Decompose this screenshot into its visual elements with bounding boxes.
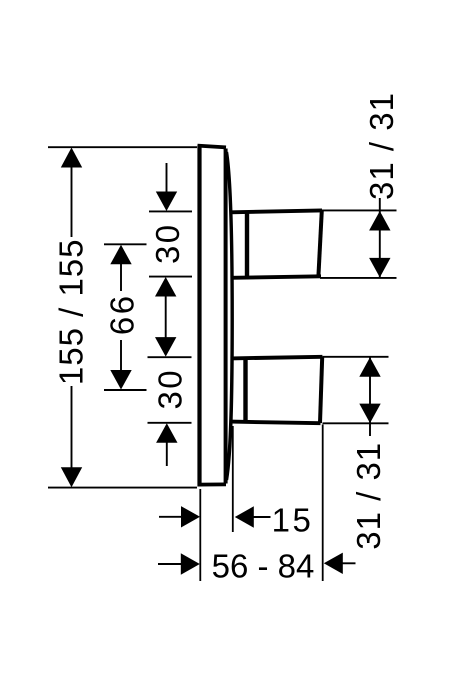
dim155 bottom arrow <box>61 467 82 487</box>
dim31a bottom ext line <box>320 277 397 279</box>
dim31a up arrow <box>369 211 390 231</box>
dim66 line upper <box>120 262 122 291</box>
knob1 right edge <box>318 211 321 277</box>
dim155 top tick <box>48 146 197 148</box>
svg-text:56 - 84: 56 - 84 <box>212 548 315 585</box>
dim31b bottom ext line <box>323 422 389 424</box>
dim155 bottom tick <box>48 487 197 489</box>
dim15 right arrowhead pointing right <box>181 506 200 527</box>
plate bottom edge <box>198 482 227 486</box>
dim5684 right tail <box>343 562 356 564</box>
dim5684 right arrowhead pointing left <box>324 553 343 574</box>
svg-text:66: 66 <box>103 293 140 335</box>
svg-text:155 / 155: 155 / 155 <box>53 238 90 385</box>
dim gap up arrow <box>155 277 176 297</box>
dim66 bottom tick <box>104 389 147 391</box>
dim5684 right ext line <box>322 425 324 582</box>
dim30b top tick <box>148 356 192 358</box>
dim30a down arrow <box>156 192 177 212</box>
dim gap double arrow line <box>165 295 167 339</box>
dim30b up arrow <box>156 423 177 443</box>
svg-text:31 / 31: 31 / 31 <box>350 442 387 550</box>
knob1 top edge <box>231 210 323 212</box>
dim31a line <box>379 198 381 277</box>
dim31b up arrow <box>359 357 380 377</box>
dim15 left tail <box>159 516 182 518</box>
dim5684 left arrowhead pointing right <box>181 553 200 574</box>
svg-text:31 / 31: 31 / 31 <box>363 92 400 200</box>
dim30b bottom tick <box>148 422 192 424</box>
dim31a down arrow <box>369 258 390 278</box>
dim155 line lower <box>71 386 73 470</box>
knob2 neck line <box>243 357 247 423</box>
dim66 line lower <box>120 340 122 372</box>
dim30a bottom tick <box>149 276 192 278</box>
knob2 right edge <box>320 357 322 423</box>
dim31a top ext line <box>318 209 397 211</box>
dim30b leader below <box>166 442 168 466</box>
knob1 neck line <box>245 211 249 278</box>
dim gap down arrow <box>155 337 176 357</box>
dim30a leader above <box>166 163 168 193</box>
knob2 top edge <box>231 357 323 359</box>
dim66 down arrow <box>110 370 131 390</box>
dim15 left arrowhead pointing left <box>235 506 254 527</box>
dim15 right tail <box>253 516 271 518</box>
dim5684 left tail <box>158 563 182 565</box>
plate back edge <box>197 146 201 487</box>
svg-text:15: 15 <box>272 502 314 539</box>
dim155 line upper <box>71 165 73 237</box>
dim31b top ext line <box>323 356 389 358</box>
svg-text:30: 30 <box>149 222 186 264</box>
dim66 top tick <box>104 243 147 245</box>
plate front rim edge <box>224 149 228 484</box>
dim31b down arrow <box>359 404 380 424</box>
dim30a top tick <box>149 210 192 212</box>
knob2 bottom edge <box>231 422 321 424</box>
dim15 ext line front <box>232 426 234 532</box>
dim31b line <box>369 358 371 437</box>
plate top edge <box>198 146 227 148</box>
dim5684 left ext line <box>199 489 201 581</box>
dim155 top arrow <box>61 148 82 168</box>
svg-text:30: 30 <box>151 368 188 410</box>
plate dome curve <box>227 152 233 480</box>
dim66 up arrow <box>110 245 131 264</box>
knob1 bottom edge <box>231 276 322 278</box>
